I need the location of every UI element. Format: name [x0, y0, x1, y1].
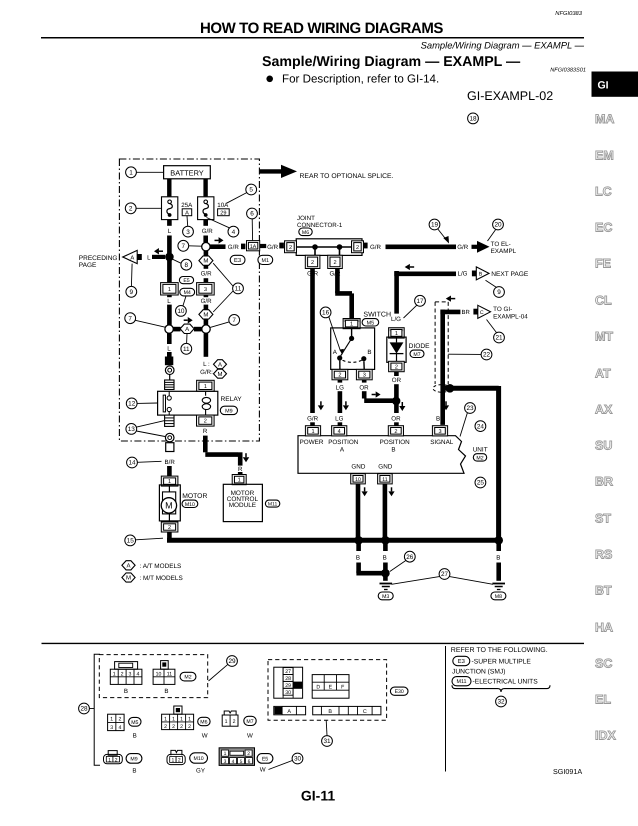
svg-text:B: B — [132, 767, 136, 774]
svg-text:MA: MA — [595, 112, 614, 126]
svg-text:M4: M4 — [184, 290, 191, 296]
svg-text:1: 1 — [129, 170, 133, 177]
svg-text:1: 1 — [238, 478, 241, 484]
svg-text:SWITCH: SWITCH — [363, 312, 391, 319]
svg-text:B: B — [391, 446, 395, 453]
svg-text:10: 10 — [177, 308, 185, 315]
svg-text:3: 3 — [129, 671, 132, 677]
svg-text:LC: LC — [595, 185, 612, 199]
svg-text:W: W — [260, 767, 266, 774]
svg-text:REFER TO THE FOLLOWING.: REFER TO THE FOLLOWING. — [451, 647, 548, 654]
svg-text:RS: RS — [595, 548, 612, 562]
svg-text:D: D — [316, 685, 320, 691]
svg-text:BR: BR — [462, 309, 471, 316]
svg-text:19: 19 — [431, 222, 439, 229]
svg-text:2: 2 — [247, 751, 250, 757]
svg-text:AX: AX — [595, 403, 613, 417]
svg-text:E5: E5 — [183, 278, 189, 284]
svg-text:BR: BR — [436, 416, 445, 423]
svg-text:11: 11 — [167, 671, 172, 677]
svg-text:NFGI0383: NFGI0383 — [555, 10, 583, 17]
svg-text:9: 9 — [130, 289, 134, 296]
svg-text:M11: M11 — [456, 679, 466, 685]
svg-text:: A/T MODELS: : A/T MODELS — [140, 563, 182, 570]
svg-text:E: E — [329, 685, 333, 691]
svg-text:MOTOR: MOTOR — [182, 493, 207, 500]
svg-text:L/G: L/G — [458, 271, 468, 278]
svg-text:B: B — [383, 555, 387, 562]
svg-text:10: 10 — [355, 477, 361, 483]
svg-text:BATTERY: BATTERY — [170, 168, 203, 177]
svg-text:SC: SC — [595, 657, 612, 671]
svg-text:TO EL-: TO EL- — [491, 241, 511, 248]
svg-text:13: 13 — [128, 426, 136, 433]
svg-text:JUNCTION (SMJ): JUNCTION (SMJ) — [452, 669, 506, 676]
svg-text:25: 25 — [477, 480, 485, 487]
svg-text:3: 3 — [363, 373, 366, 379]
svg-text:3: 3 — [186, 229, 190, 236]
svg-text:11: 11 — [382, 477, 387, 483]
svg-text:11: 11 — [235, 286, 242, 293]
svg-text:M: M — [126, 575, 131, 582]
svg-text:2: 2 — [178, 758, 181, 764]
svg-text:30: 30 — [285, 690, 291, 696]
svg-text:29: 29 — [228, 658, 236, 665]
svg-text:HA: HA — [595, 621, 613, 635]
svg-text:2: 2 — [311, 260, 314, 266]
svg-text:10: 10 — [156, 671, 162, 677]
svg-text:G/R: G/R — [267, 244, 279, 251]
svg-text:M: M — [203, 258, 208, 265]
svg-text:PAGE: PAGE — [79, 262, 97, 269]
svg-text:B: B — [164, 688, 168, 695]
svg-text:5: 5 — [240, 759, 243, 765]
svg-text:1: 1 — [225, 719, 228, 725]
svg-text:2: 2 — [394, 429, 397, 435]
svg-text:1: 1 — [113, 671, 116, 677]
svg-text:C: C — [480, 310, 484, 316]
svg-text:1A: 1A — [250, 244, 257, 250]
svg-text:For Description, refer to GI-1: For Description, refer to GI-14. — [282, 73, 439, 86]
svg-text:MT: MT — [595, 330, 613, 344]
svg-text:CL: CL — [595, 294, 612, 308]
svg-text:M2: M2 — [184, 675, 191, 681]
svg-text:M3: M3 — [382, 594, 389, 600]
svg-text:R: R — [203, 428, 208, 435]
svg-text:M9: M9 — [130, 756, 137, 762]
svg-text:BR: BR — [595, 475, 613, 489]
svg-text:B: B — [496, 555, 500, 562]
svg-text:EC: EC — [595, 221, 612, 235]
svg-text:B/R: B/R — [165, 459, 176, 466]
svg-text:GI-EXAMPL-02: GI-EXAMPL-02 — [467, 89, 553, 103]
svg-text:8: 8 — [185, 262, 189, 269]
svg-text:G/R: G/R — [201, 271, 213, 278]
svg-text:G/R: G/R — [228, 244, 240, 251]
svg-text:2: 2 — [121, 671, 124, 677]
svg-text:G/R: G/R — [370, 244, 382, 251]
svg-text:B: B — [124, 688, 128, 695]
svg-text:G/R:: G/R: — [200, 369, 213, 376]
svg-text:B: B — [479, 272, 483, 278]
svg-text:L/G: L/G — [391, 316, 401, 323]
svg-text:18: 18 — [469, 116, 477, 123]
svg-text:M10: M10 — [194, 756, 204, 762]
svg-text:29: 29 — [220, 210, 226, 216]
svg-text:FE: FE — [595, 257, 611, 271]
svg-text:PRECEDING: PRECEDING — [79, 255, 118, 262]
svg-text:6: 6 — [248, 759, 251, 765]
svg-text:17: 17 — [416, 298, 424, 305]
svg-text:4: 4 — [136, 671, 139, 677]
svg-text:F: F — [341, 685, 344, 691]
svg-text:E5: E5 — [262, 756, 268, 762]
svg-text:TO GI-: TO GI- — [493, 306, 512, 313]
svg-text:21: 21 — [495, 335, 503, 342]
svg-text:W: W — [202, 732, 208, 739]
svg-text:GI: GI — [598, 80, 609, 92]
svg-text:POSITION: POSITION — [328, 439, 359, 446]
svg-text:4: 4 — [232, 229, 236, 236]
svg-text:1: 1 — [180, 717, 183, 723]
svg-text:A: A — [126, 562, 130, 569]
svg-text:M6: M6 — [302, 230, 309, 236]
svg-text:E30: E30 — [395, 689, 404, 695]
svg-text:NFGI0383S01: NFGI0383S01 — [550, 68, 586, 74]
svg-text:1: 1 — [204, 384, 207, 390]
svg-text:B: B — [367, 349, 371, 356]
svg-text:2: 2 — [168, 525, 171, 531]
svg-text:L: L — [147, 255, 151, 262]
svg-text:9: 9 — [497, 289, 501, 296]
svg-text:1: 1 — [108, 757, 111, 763]
svg-text:15: 15 — [127, 538, 135, 545]
svg-text:M9: M9 — [225, 408, 233, 414]
svg-text:7: 7 — [232, 317, 236, 324]
svg-text:HOW TO READ WIRING DIAGRAMS: HOW TO READ WIRING DIAGRAMS — [200, 20, 443, 37]
svg-text:G/R: G/R — [307, 416, 319, 423]
svg-text:2: 2 — [188, 724, 191, 730]
svg-text:E3: E3 — [458, 658, 465, 665]
svg-text:3: 3 — [110, 725, 113, 731]
svg-text:31: 31 — [323, 738, 331, 745]
svg-text:OR: OR — [359, 385, 369, 392]
svg-text:2: 2 — [115, 757, 118, 763]
svg-text:DIODE: DIODE — [409, 343, 430, 350]
svg-text:M7: M7 — [413, 352, 420, 358]
svg-text:G/R: G/R — [202, 228, 214, 235]
svg-text:7: 7 — [182, 243, 186, 250]
svg-text:M5: M5 — [367, 320, 375, 326]
svg-text:2: 2 — [289, 245, 292, 251]
svg-text:SGI091A: SGI091A — [553, 767, 582, 776]
svg-text:4: 4 — [232, 759, 235, 765]
svg-text:LG: LG — [336, 385, 344, 392]
svg-text:UNIT: UNIT — [473, 447, 488, 454]
svg-text:Sample/Wiring Diagram — EXAMPL: Sample/Wiring Diagram — EXAMPL — — [262, 54, 521, 70]
svg-text:M: M — [165, 501, 173, 511]
svg-text:EXAMPL-04: EXAMPL-04 — [493, 313, 528, 320]
svg-text:M7: M7 — [246, 719, 253, 725]
svg-text:L: L — [167, 345, 171, 352]
svg-text:OR: OR — [391, 416, 401, 423]
svg-text:G/R: G/R — [457, 244, 469, 251]
svg-text:1: 1 — [395, 331, 398, 337]
svg-text:POSITION: POSITION — [380, 439, 411, 446]
svg-text:26: 26 — [406, 554, 414, 561]
svg-text:G/R: G/R — [201, 298, 213, 305]
svg-text:-ELECTRICAL UNITS: -ELECTRICAL UNITS — [473, 679, 539, 686]
svg-text:2: 2 — [172, 724, 175, 730]
svg-text:MODULE: MODULE — [229, 502, 256, 509]
svg-text:M10: M10 — [185, 502, 195, 508]
svg-text:A: A — [185, 326, 189, 333]
svg-text:2: 2 — [180, 724, 183, 730]
svg-text:L: L — [168, 228, 172, 235]
svg-text:B: B — [328, 709, 332, 715]
svg-text:3: 3 — [204, 287, 207, 293]
svg-text:R: R — [238, 466, 243, 473]
svg-text:M: M — [203, 312, 208, 319]
svg-text:16: 16 — [322, 310, 330, 317]
svg-text:14: 14 — [128, 460, 136, 467]
svg-text:2: 2 — [204, 419, 207, 425]
svg-text:28: 28 — [80, 706, 88, 713]
svg-text:2: 2 — [233, 719, 236, 725]
svg-text:32: 32 — [497, 699, 505, 706]
svg-text:2: 2 — [164, 724, 167, 730]
svg-text:L: L — [167, 298, 171, 305]
svg-text:3: 3 — [224, 759, 227, 765]
svg-text:M1: M1 — [262, 258, 270, 264]
svg-text:M8: M8 — [495, 594, 502, 600]
svg-text:GI-11: GI-11 — [301, 788, 335, 804]
svg-text:W: W — [247, 732, 253, 739]
svg-text:Sample/Wiring Diagram — EXAMPL: Sample/Wiring Diagram — EXAMPL — — [421, 40, 585, 51]
svg-text:2: 2 — [129, 206, 133, 213]
svg-text:4: 4 — [338, 429, 341, 435]
svg-text:A: A — [185, 210, 189, 216]
svg-text:REAR TO OPTIONAL SPLICE.: REAR TO OPTIONAL SPLICE. — [300, 173, 394, 180]
svg-text:2: 2 — [395, 365, 398, 371]
svg-text:AT: AT — [595, 367, 611, 381]
svg-text:GND: GND — [378, 464, 392, 471]
svg-text:7: 7 — [128, 315, 132, 322]
svg-text:M5: M5 — [131, 720, 138, 726]
svg-text:C: C — [363, 709, 367, 715]
svg-text:20: 20 — [494, 222, 502, 229]
svg-text:M11: M11 — [268, 502, 278, 508]
svg-text:B: B — [356, 555, 360, 562]
svg-text:6: 6 — [250, 211, 254, 218]
svg-text:: M/T MODELS: : M/T MODELS — [140, 575, 183, 582]
svg-text:3: 3 — [438, 429, 441, 435]
svg-text:A: A — [287, 709, 291, 715]
svg-text:RELAY: RELAY — [221, 396, 243, 403]
svg-text:24: 24 — [477, 423, 485, 430]
svg-text:EM: EM — [595, 149, 614, 163]
svg-text:OR: OR — [392, 377, 402, 384]
svg-text:5: 5 — [249, 187, 253, 194]
svg-text:A: A — [218, 361, 222, 368]
svg-text:M6: M6 — [200, 720, 207, 726]
svg-text:2: 2 — [356, 245, 359, 251]
svg-text:L :: L : — [203, 361, 210, 368]
svg-text:IDX: IDX — [595, 729, 617, 743]
svg-text:BT: BT — [595, 584, 612, 598]
svg-text:LG: LG — [335, 416, 343, 423]
svg-text:M2: M2 — [476, 455, 483, 461]
svg-text:2: 2 — [333, 260, 336, 266]
svg-text:1: 1 — [168, 287, 171, 293]
svg-text:POWER: POWER — [300, 439, 324, 446]
svg-text:12: 12 — [128, 401, 136, 408]
svg-text:1: 1 — [188, 717, 191, 723]
svg-text:GY: GY — [196, 767, 205, 774]
svg-text:30: 30 — [294, 756, 302, 763]
svg-text:23: 23 — [466, 405, 474, 412]
svg-text:1: 1 — [164, 717, 167, 723]
svg-text:A: A — [130, 255, 134, 261]
svg-text:4: 4 — [118, 725, 121, 731]
svg-text:-SUPER MULTIPLE: -SUPER MULTIPLE — [472, 659, 532, 666]
svg-text:27: 27 — [441, 571, 449, 578]
svg-text:1: 1 — [350, 322, 353, 328]
svg-text:EL: EL — [595, 693, 611, 707]
svg-text:E3: E3 — [234, 257, 241, 264]
svg-text:NEXT PAGE: NEXT PAGE — [491, 271, 529, 278]
svg-text:25A: 25A — [181, 202, 193, 209]
svg-text:1: 1 — [110, 717, 113, 723]
svg-text:B: B — [133, 732, 137, 739]
svg-text:2: 2 — [338, 373, 341, 379]
svg-text:2: 2 — [118, 717, 121, 723]
svg-text:ST: ST — [595, 512, 611, 526]
svg-text:EXAMPL: EXAMPL — [491, 248, 517, 255]
svg-text:SIGNAL: SIGNAL — [430, 439, 454, 446]
svg-text:M: M — [218, 371, 223, 378]
svg-text:1: 1 — [172, 717, 175, 723]
svg-text:22: 22 — [483, 352, 491, 359]
svg-text:1: 1 — [172, 758, 175, 764]
svg-text:SU: SU — [595, 439, 612, 453]
svg-text:1: 1 — [311, 429, 314, 435]
svg-text:GND: GND — [351, 464, 365, 471]
svg-text:1: 1 — [224, 751, 227, 757]
svg-text:11: 11 — [183, 346, 190, 353]
